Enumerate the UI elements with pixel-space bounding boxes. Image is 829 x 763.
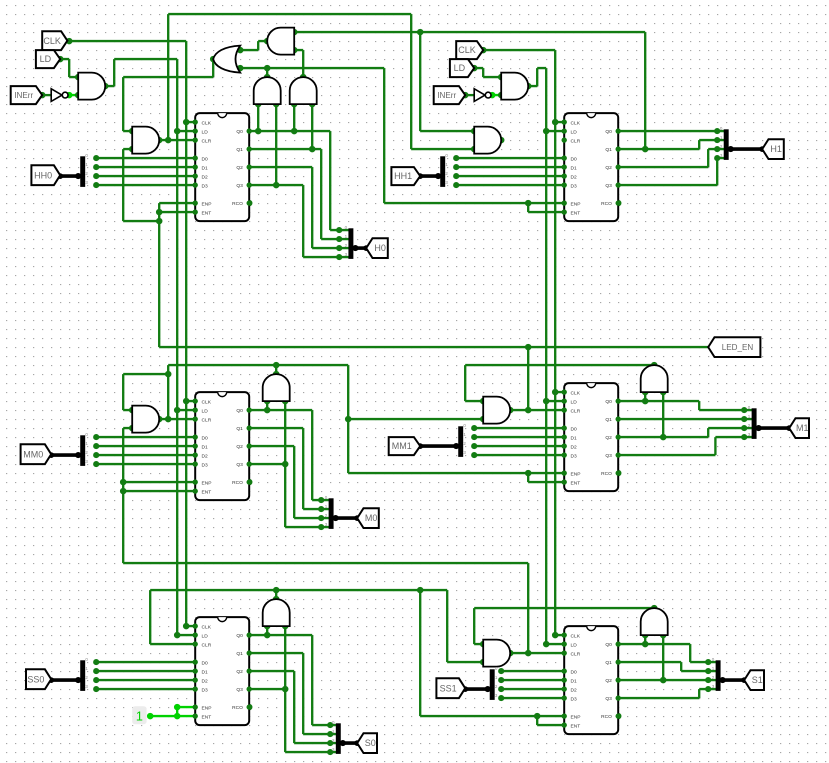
wire SS0 dome5 in1 bbox=[266, 626, 269, 635]
wire HH1 Q1 bbox=[618, 140, 724, 149]
svg-text:D2: D2 bbox=[202, 678, 209, 684]
input pin LD2 bbox=[450, 59, 474, 77]
svg-text:1: 1 bbox=[136, 710, 143, 724]
svg-text:Q1: Q1 bbox=[605, 417, 612, 423]
wire net MM1 gate in1 (dome4 out) bbox=[465, 365, 654, 401]
svg-text:CLK: CLK bbox=[571, 390, 581, 396]
wire SS1 Q1 bbox=[618, 662, 716, 671]
constant 1 bbox=[132, 706, 146, 724]
svg-text:D1: D1 bbox=[202, 444, 209, 450]
svg-text:CLK: CLK bbox=[202, 624, 212, 630]
wire MM0 Q0 to splitter M0 bbox=[249, 410, 331, 500]
svg-text:LD: LD bbox=[202, 129, 209, 135]
svg-text:Q3: Q3 bbox=[236, 183, 243, 189]
splitter H0 out bbox=[348, 228, 354, 259]
input pin LD bbox=[36, 50, 60, 68]
svg-text:SS0: SS0 bbox=[27, 674, 44, 684]
svg-text:Q0: Q0 bbox=[236, 633, 243, 639]
svg-text:D0: D0 bbox=[571, 156, 578, 162]
and gate C1 (HH1 CLR) bbox=[474, 127, 501, 154]
and gate D2 (HH0 Q0*Q1) bbox=[290, 77, 317, 104]
wire net SS1 gate in2 bbox=[447, 590, 483, 662]
counter SS1 bbox=[564, 626, 618, 734]
svg-text:ENP: ENP bbox=[571, 201, 581, 207]
svg-text:ENP: ENP bbox=[202, 480, 212, 486]
svg-text:D2: D2 bbox=[571, 174, 578, 180]
svg-text:Q3: Q3 bbox=[605, 453, 612, 459]
wire HH0 Q2 bbox=[249, 167, 351, 248]
wire SS1 Q3 bbox=[618, 689, 716, 698]
svg-text:D3: D3 bbox=[571, 696, 578, 702]
and gate A2 (LD2+/INErr2, HH1) bbox=[501, 73, 528, 100]
svg-text:D3: D3 bbox=[571, 183, 578, 189]
svg-text:Q3: Q3 bbox=[236, 687, 243, 693]
svg-text:INErr: INErr bbox=[437, 91, 456, 100]
svg-text:Q0: Q0 bbox=[236, 408, 243, 414]
svg-text:D2: D2 bbox=[571, 444, 578, 450]
and gate D3 (MM0 Q0*Q3) bbox=[263, 374, 290, 401]
svg-text:Q1: Q1 bbox=[236, 651, 243, 657]
and gate C2 (MM0 CLR) bbox=[132, 406, 159, 433]
wire net HH0 clear (AND out to CLR, up to HH1 gate) bbox=[159, 14, 474, 149]
input pin SS0 bbox=[26, 669, 51, 689]
svg-text:D1: D1 bbox=[571, 678, 578, 684]
wire HH0 dome1 inputs bbox=[258, 104, 276, 185]
svg-text:ENT: ENT bbox=[571, 723, 581, 729]
svg-text:Q2: Q2 bbox=[605, 435, 612, 441]
svg-text:CLR: CLR bbox=[202, 138, 212, 144]
svg-text:D1: D1 bbox=[571, 435, 578, 441]
output pin LED_EN bbox=[708, 337, 760, 357]
splitter S1 out bbox=[715, 660, 721, 691]
counter HH0 bbox=[195, 113, 249, 221]
svg-text:D3: D3 bbox=[202, 462, 209, 468]
wire LD pin to AND1 bbox=[60, 59, 78, 77]
svg-text:D2: D2 bbox=[202, 453, 209, 459]
svg-text:ENT: ENT bbox=[571, 210, 581, 216]
splitter bit dots bbox=[93, 128, 747, 755]
wire SS1 D rows bbox=[501, 671, 564, 698]
wire net MM1 clear to HH-enable bbox=[510, 347, 564, 410]
svg-text:Q2: Q2 bbox=[236, 165, 243, 171]
svg-text:Q3: Q3 bbox=[605, 183, 612, 189]
input pin CLK bbox=[42, 31, 67, 50]
wire west-AND out to OR bbox=[240, 41, 267, 50]
svg-text:D3: D3 bbox=[202, 687, 209, 693]
wire MM1 Q3 bbox=[618, 437, 752, 455]
wire NOT2 input bbox=[465, 94, 474, 97]
splitter S0 out bbox=[336, 723, 342, 754]
and gate C3 (MM1 CLR) bbox=[483, 397, 510, 424]
svg-text:D3: D3 bbox=[571, 453, 578, 459]
and gate AW (west) bbox=[267, 28, 294, 55]
svg-text:Q2: Q2 bbox=[236, 669, 243, 675]
splitter SS1 in bbox=[489, 669, 495, 700]
wire SS0 Q3 bbox=[249, 626, 338, 752]
svg-text:LD: LD bbox=[571, 399, 578, 405]
wire MM0 Q1 bbox=[249, 428, 331, 509]
svg-text:LD: LD bbox=[202, 633, 209, 639]
svg-text:D0: D0 bbox=[202, 156, 209, 162]
wire HH0 Q0 to splitter H0 bbox=[249, 131, 351, 230]
wire HH1 Q2 bbox=[618, 149, 724, 167]
output pin S1 bbox=[744, 670, 764, 690]
svg-text:CLR: CLR bbox=[571, 408, 581, 414]
svg-text:Q2: Q2 bbox=[605, 678, 612, 684]
svg-text:Q1: Q1 bbox=[236, 426, 243, 432]
input pin INErr bbox=[11, 86, 43, 104]
splitter MM0 in bbox=[80, 435, 86, 466]
wire HH0 Q1 bbox=[249, 149, 351, 239]
svg-text:LD: LD bbox=[571, 129, 578, 135]
not gate N1 (INErr) bbox=[51, 89, 62, 102]
wire MM0 D rows bbox=[96, 437, 195, 464]
svg-text:HH1: HH1 bbox=[394, 171, 412, 181]
splitter M1 out bbox=[751, 408, 757, 439]
wire dome2 out to west-AND bbox=[294, 50, 303, 77]
wire net MM-enable (MM0 ENP/ENT, MM1 ENP/ENT, SS1 clear) bbox=[123, 428, 564, 653]
wire net HH1.Q1 tap to west-AND and HH1 gate bbox=[294, 32, 645, 149]
and gate D6 (SS1 Q0*Q2) bbox=[641, 608, 668, 635]
wire MM0 dome3 in1 bbox=[266, 401, 269, 410]
svg-text:RCO: RCO bbox=[232, 480, 243, 486]
svg-text:H0: H0 bbox=[374, 243, 386, 253]
svg-text:MM0: MM0 bbox=[23, 449, 43, 459]
wire SS0 D rows bbox=[96, 662, 195, 689]
svg-text:ENT: ENT bbox=[202, 489, 212, 495]
counter HH1 bbox=[564, 113, 618, 221]
svg-text:Q0: Q0 bbox=[605, 129, 612, 135]
wire SS1 Q0 to splitter S1 bbox=[618, 644, 716, 662]
wire MM0 Q2 bbox=[249, 446, 331, 518]
svg-text:D1: D1 bbox=[571, 165, 578, 171]
svg-text:D0: D0 bbox=[571, 426, 578, 432]
svg-text:RCO: RCO bbox=[232, 201, 243, 207]
wire SS0 Q1 bbox=[249, 653, 338, 734]
svg-text:CLK: CLK bbox=[202, 399, 212, 405]
wire MM1 dome4 inputs bbox=[645, 392, 663, 437]
svg-text:ENT: ENT bbox=[571, 480, 581, 486]
input pin SS1 bbox=[436, 678, 465, 698]
svg-text:HH0: HH0 bbox=[34, 170, 52, 180]
input pin MM1 bbox=[389, 437, 421, 455]
wire net SS1 gate in1 (dome6 out) bbox=[474, 608, 654, 644]
wire SS0 Q0 to splitter S0 bbox=[249, 635, 338, 725]
svg-text:ENP: ENP bbox=[571, 471, 581, 477]
svg-text:CLK: CLK bbox=[202, 120, 212, 126]
svg-text:LD: LD bbox=[40, 54, 52, 64]
svg-text:M0: M0 bbox=[365, 513, 378, 523]
wire HH0 dome2 inputs bbox=[294, 104, 312, 149]
svg-text:CLR: CLR bbox=[202, 417, 212, 423]
splitter SS0 in bbox=[80, 660, 86, 691]
wire SS1 Q2 bbox=[618, 679, 716, 682]
svg-text:Q0: Q0 bbox=[605, 399, 612, 405]
or gate O1 (west) bbox=[213, 46, 240, 73]
svg-text:D2: D2 bbox=[202, 174, 209, 180]
svg-text:CLK: CLK bbox=[43, 36, 61, 46]
wire MM1 Q2 bbox=[618, 428, 752, 437]
svg-text:ENT: ENT bbox=[202, 210, 212, 216]
svg-text:Q3: Q3 bbox=[236, 462, 243, 468]
svg-text:Q3: Q3 bbox=[605, 696, 612, 702]
svg-text:RCO: RCO bbox=[601, 714, 612, 720]
svg-text:D0: D0 bbox=[571, 669, 578, 675]
svg-text:Q0: Q0 bbox=[605, 642, 612, 648]
and gate C4 (SS1 CLR) bbox=[483, 640, 510, 667]
wire MM1 Q0 to splitter M1 bbox=[618, 401, 752, 410]
svg-text:INErr: INErr bbox=[14, 91, 33, 100]
input pin HH1 bbox=[391, 167, 420, 185]
svg-text:ENP: ENP bbox=[202, 705, 212, 711]
svg-text:LD: LD bbox=[202, 408, 209, 414]
wire MM1 D rows bbox=[474, 428, 564, 455]
wire SS1 dome6 inputs bbox=[645, 635, 663, 680]
splitter H1 out bbox=[723, 129, 729, 160]
counter SS0 bbox=[195, 617, 249, 725]
output pin M0 bbox=[357, 508, 379, 528]
splitter M0 out bbox=[328, 498, 334, 529]
wire HH0 D rows bbox=[96, 158, 195, 185]
svg-text:RCO: RCO bbox=[232, 705, 243, 711]
svg-text:MM1: MM1 bbox=[392, 441, 412, 451]
svg-text:RCO: RCO bbox=[601, 471, 612, 477]
svg-text:M1: M1 bbox=[796, 423, 809, 433]
not gate N2 (INErr2) bbox=[474, 89, 485, 102]
svg-text:Q1: Q1 bbox=[605, 147, 612, 153]
counter MM0 bbox=[195, 392, 249, 500]
splitter HH1 in bbox=[440, 156, 446, 187]
wire net CLK (left) bbox=[69, 41, 195, 626]
svg-text:LD: LD bbox=[571, 642, 578, 648]
svg-text:D3: D3 bbox=[202, 183, 209, 189]
svg-text:S0: S0 bbox=[365, 738, 376, 748]
output pin M1 bbox=[789, 418, 809, 438]
input pin INErr2 bbox=[434, 86, 466, 104]
and gate D1 (HH0 Q0*Q3) bbox=[254, 77, 281, 104]
svg-text:SS1: SS1 bbox=[440, 683, 457, 693]
svg-text:LED_EN: LED_EN bbox=[722, 343, 754, 352]
and gate A1 (LD+/INErr, HH0) bbox=[78, 73, 105, 100]
svg-text:Q2: Q2 bbox=[236, 444, 243, 450]
wire HH1 Q3 bbox=[618, 158, 724, 185]
svg-text:RCO: RCO bbox=[601, 201, 612, 207]
svg-text:Q0: Q0 bbox=[236, 129, 243, 135]
svg-text:CLK: CLK bbox=[571, 633, 581, 639]
wire HH0 Q3 bbox=[249, 185, 351, 257]
and gate D5 (SS0 Q0*Q3) bbox=[263, 599, 290, 626]
svg-text:D0: D0 bbox=[202, 660, 209, 666]
svg-text:LD: LD bbox=[454, 63, 466, 73]
svg-text:CLK: CLK bbox=[571, 120, 581, 126]
output pin S0 bbox=[357, 733, 377, 753]
svg-text:Q1: Q1 bbox=[236, 147, 243, 153]
wire net CLK2 (right) bbox=[483, 50, 564, 635]
splitter MM1 in bbox=[458, 426, 464, 457]
svg-text:Q2: Q2 bbox=[605, 165, 612, 171]
svg-text:D1: D1 bbox=[202, 165, 209, 171]
svg-text:ENT: ENT bbox=[202, 714, 212, 720]
input pin HH0 bbox=[31, 165, 60, 185]
svg-text:CLR: CLR bbox=[571, 138, 581, 144]
wire net hour-enable (OR.in2, HH1 ENP/ENT) bbox=[240, 68, 564, 212]
wire NOT1 input bbox=[42, 94, 51, 97]
wire MM0 Q3 bbox=[249, 401, 331, 527]
bright wires: NOT outputs and constant-1 bbox=[67, 95, 501, 716]
svg-text:D0: D0 bbox=[202, 435, 209, 441]
svg-text:CLR: CLR bbox=[571, 651, 581, 657]
wire net HH-enable (to HH0 ENP/ENT, LED_EN) bbox=[123, 149, 708, 347]
input pin CLK2 bbox=[456, 41, 483, 59]
wire net LOAD (left, AND1 out) bbox=[105, 59, 195, 635]
svg-text:Q1: Q1 bbox=[605, 660, 612, 666]
and gate C0 (HH0 CLR) bbox=[132, 127, 159, 154]
wire SS0 Q2 bbox=[249, 671, 338, 743]
svg-text:CLK: CLK bbox=[458, 45, 476, 55]
wire net MM0 clear (dome3/AND out, to MM1 gate) bbox=[123, 365, 483, 473]
svg-text:ENP: ENP bbox=[571, 714, 581, 720]
svg-text:CLR: CLR bbox=[202, 642, 212, 648]
svg-text:D1: D1 bbox=[202, 669, 209, 675]
output pin H1 bbox=[762, 139, 784, 159]
output pin H0 bbox=[366, 238, 388, 258]
wire net SS1 clear bbox=[510, 652, 564, 655]
svg-text:S1: S1 bbox=[752, 675, 763, 685]
and gate D4 (MM1 Q0*Q2) bbox=[641, 365, 668, 392]
wire LD2 pin to AND2 bbox=[474, 68, 501, 77]
wire HH1 Q0 to splitter H1 bbox=[618, 130, 724, 133]
splitter HH0 in bbox=[80, 156, 86, 187]
wire HH1 D rows bbox=[456, 158, 564, 185]
svg-text:ENP: ENP bbox=[202, 201, 212, 207]
wire HH0 dome1 out bbox=[266, 68, 269, 77]
wire net OR out to HH0 gate bbox=[123, 59, 213, 131]
wire net SS0 carry to SS1 ENP/ENT bbox=[420, 590, 564, 725]
wire net SS0 clear (dome5 out) bbox=[150, 590, 447, 644]
wire MM1 Q1 bbox=[618, 418, 752, 421]
counter MM1 bbox=[564, 383, 618, 491]
svg-text:H1: H1 bbox=[770, 144, 782, 154]
input pin MM0 bbox=[21, 444, 52, 464]
wire net LOAD2 (right, AND2 out) bbox=[528, 68, 564, 644]
svg-text:D2: D2 bbox=[571, 687, 578, 693]
